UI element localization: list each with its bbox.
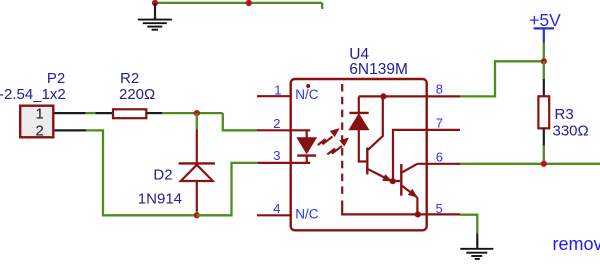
junction dot D2 anode node bbox=[194, 212, 200, 218]
transistor Q1 emitter bbox=[368, 169, 392, 181]
wire +5V stem to node bbox=[543, 43, 545, 61]
+5V power bar bbox=[534, 27, 554, 29]
svg-text:1N914: 1N914 bbox=[138, 190, 182, 207]
dashed separator line bbox=[341, 84, 343, 198]
diode D2 triangle bbox=[181, 165, 213, 181]
wire pin6 net horizontal bbox=[460, 163, 600, 165]
IC pin 2 line (into LED) bbox=[257, 129, 310, 131]
transistor Q2 emitter bbox=[402, 186, 417, 197]
junction dot Q1 emitter node bbox=[390, 178, 396, 184]
svg-text:-2.54_1x2: -2.54_1x2 bbox=[0, 86, 66, 103]
connector P2 body bbox=[20, 106, 53, 138]
svg-text:2: 2 bbox=[273, 116, 280, 131]
IC pin 1 stub bbox=[257, 95, 292, 97]
wire D2 top green segment bbox=[196, 113, 198, 129]
wire R3 to pin6 net bbox=[543, 146, 545, 164]
svg-text:3: 3 bbox=[273, 148, 280, 163]
resistor R2 body bbox=[113, 109, 146, 118]
junction dot +5V node bbox=[541, 58, 547, 64]
photodiode lower vertical to Q1 base bbox=[359, 130, 367, 162]
svg-text:4: 4 bbox=[273, 201, 280, 216]
wire junction down to IC pin2 (corner) bbox=[223, 113, 258, 130]
junction dot Q1 collector at rail bbox=[380, 93, 386, 99]
LED lower vertical bbox=[306, 156, 308, 163]
photodiode cathode bar bbox=[349, 112, 368, 114]
diode D2 cathode bar bbox=[179, 162, 215, 164]
wire R2 right lead bbox=[147, 112, 162, 114]
diode D2 top lead bbox=[196, 130, 198, 163]
wire P2 pin2 stub bbox=[55, 129, 87, 131]
wire pin5 to ground bbox=[460, 215, 477, 234]
transistor Q2 base bar bbox=[400, 164, 402, 196]
resistor R3 body bbox=[538, 96, 549, 128]
transistor Q1 base bar bbox=[366, 148, 368, 175]
transistor Q1 collector bbox=[368, 96, 383, 149]
svg-text:P2: P2 bbox=[47, 70, 65, 87]
svg-text:+5V: +5V bbox=[529, 10, 561, 30]
junction dot R3/pin6 bbox=[541, 161, 547, 167]
svg-text:N/C: N/C bbox=[295, 87, 319, 102]
wire top horizontal net bbox=[154, 2, 322, 4]
svg-text:1: 1 bbox=[274, 82, 281, 97]
photodiode top vertical bbox=[358, 96, 360, 112]
wire net P2.1 to R2 bbox=[86, 112, 96, 114]
Q1 emitter arrowhead bbox=[382, 174, 392, 181]
wire R3 top lead bbox=[543, 79, 545, 96]
junction dot R2/D2 node bbox=[194, 110, 200, 116]
light arrow 1 bbox=[318, 129, 339, 145]
ground symbol top left bbox=[138, 20, 172, 30]
svg-text:D2: D2 bbox=[153, 167, 172, 184]
diode D2 bottom lead bbox=[196, 181, 198, 211]
+5V stem (blue) bbox=[543, 28, 545, 43]
svg-text:R3: R3 bbox=[555, 106, 574, 123]
wire top right stub down bbox=[321, 3, 323, 9]
transistor Q2 base lead bbox=[393, 180, 401, 182]
wire R3 bottom lead bbox=[543, 129, 545, 146]
Q2 emitter arrowhead bbox=[408, 189, 418, 198]
junction dot Q2 emitter at rail bbox=[415, 211, 421, 217]
svg-text:2: 2 bbox=[36, 122, 44, 139]
LED triangle (filled, pointing down) bbox=[297, 138, 316, 154]
wire P2 pin1 stub bbox=[55, 112, 86, 114]
transistor Q2 collector to pin6 bbox=[402, 164, 417, 173]
LED cathode bar bbox=[297, 154, 316, 156]
wire R2 to junction bbox=[162, 112, 223, 114]
svg-text:6: 6 bbox=[436, 149, 443, 164]
ground stem bottom right bbox=[476, 233, 478, 248]
svg-text:330Ω: 330Ω bbox=[553, 123, 589, 140]
IC pin 4 stub bbox=[257, 214, 292, 216]
wire pin8 to +5V node bbox=[460, 61, 544, 96]
junction dot top middle bbox=[246, 0, 252, 6]
IC U4 body bbox=[291, 79, 427, 230]
solid corner to emitter rail bbox=[342, 201, 460, 215]
IC pin 3 line (into LED) bbox=[258, 162, 311, 164]
decoration dot near pin1 bbox=[306, 84, 310, 88]
svg-text:5: 5 bbox=[436, 201, 443, 216]
svg-text:N/C: N/C bbox=[295, 207, 319, 222]
wire P2.2 net: down, along bottom, to D2 anode bbox=[86, 130, 197, 215]
wire D2 bottom green segment bbox=[196, 211, 198, 215]
wire ground stem top left bbox=[154, 3, 156, 20]
svg-text:R2: R2 bbox=[120, 70, 139, 87]
svg-text:7: 7 bbox=[436, 116, 443, 131]
junction dot top left bbox=[152, 0, 158, 6]
IC pin 7 line and vertical to base node bbox=[393, 130, 460, 181]
ground symbol bottom right bbox=[460, 249, 493, 259]
svg-text:6N139M: 6N139M bbox=[349, 61, 408, 78]
LED vertical connects bbox=[306, 130, 308, 138]
svg-text:220Ω: 220Ω bbox=[119, 86, 155, 103]
svg-text:remove: remove bbox=[553, 234, 600, 254]
light arrow 2 bbox=[327, 138, 348, 154]
svg-text:8: 8 bbox=[436, 82, 443, 97]
wire R2 left lead bbox=[96, 112, 114, 114]
wire D2 anode to IC pin3 (up corner) bbox=[197, 163, 258, 215]
wire +5V node down to R3 bbox=[543, 61, 545, 79]
Q2 emitter vertical to rail bbox=[416, 197, 418, 214]
svg-text:1: 1 bbox=[36, 106, 44, 123]
IC pin 6 line bbox=[417, 163, 460, 165]
IC pin8 rail bbox=[359, 95, 460, 97]
photodiode triangle (filled, pointing up) bbox=[349, 114, 368, 130]
